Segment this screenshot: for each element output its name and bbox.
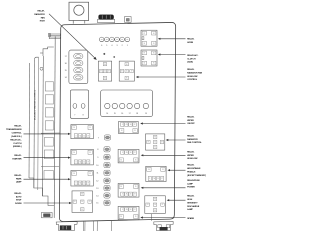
svg-text:HIGH: HIGH [40,21,46,23]
svg-text:RELAY-: RELAY- [14,192,21,195]
svg-text:30: 30 [83,162,85,164]
svg-text:30: 30 [154,142,156,144]
svg-text:30: 30 [144,43,146,45]
leader arrow [169,199,186,201]
svg-text:86: 86 [153,53,155,55]
relay K4 a/c clutch gas [141,50,157,66]
svg-text:87: 87 [88,183,90,185]
mounting legs [82,221,84,231]
svg-text:85: 85 [153,43,155,45]
svg-text:5: 5 [106,45,107,47]
module outer edge [28,63,31,178]
svg-text:85: 85 [126,78,128,80]
svg-text:RELAY-: RELAY- [187,151,194,154]
svg-text:HIGH/LOW: HIGH/LOW [187,76,197,78]
leader arrow [24,157,69,159]
svg-text:86: 86 [126,64,128,66]
svg-text:30: 30 [130,209,132,211]
cartridge fuse block F14-F17 [69,50,88,84]
relay K5 radiator fan control [146,134,165,150]
svg-text:HIGH: HIGH [187,199,193,201]
svg-text:85: 85 [153,63,155,65]
svg-text:RELAY A/C-: RELAY A/C- [10,139,21,142]
svg-text:1: 1 [127,45,128,47]
svg-text:4: 4 [111,45,112,47]
svg-text:86: 86 [73,173,75,175]
svg-text:2: 2 [122,45,123,47]
svg-text:85: 85 [89,152,91,154]
svg-text:RADIATOR FAN: RADIATOR FAN [187,71,202,74]
leader arrow [24,178,69,180]
relay K9 wiper high/low [118,149,139,163]
svg-text:30: 30 [130,152,132,154]
leader arrow [160,38,186,40]
svg-text:87: 87 [121,71,123,73]
svg-text:87: 87 [134,124,136,126]
svg-text:85: 85 [135,160,137,162]
svg-text:(EXCEPT MEMORY): (EXCEPT MEMORY) [187,175,206,177]
svg-text:9: 9 [97,157,98,159]
svg-text:86: 86 [154,137,156,139]
panel bottom steps [29,178,54,206]
svg-text:RELAY-: RELAY- [187,164,194,167]
svg-text:CONTROL: CONTROL [12,132,23,134]
left cover panel edge [54,36,55,218]
mounting post P1 with hole [69,2,89,20]
leader arrow [143,187,186,189]
svg-text:HORN: HORN [187,42,193,44]
svg-text:DOWN: DOWN [15,203,22,205]
svg-text:30: 30 [126,71,128,73]
svg-text:LAMP: LAMP [16,181,22,184]
svg-text:CLUTCH: CLUTCH [13,143,22,145]
svg-text:87: 87 [161,142,163,144]
svg-text:87: 87 [144,53,146,55]
svg-text:86: 86 [121,130,123,132]
svg-text:85: 85 [162,169,164,171]
svg-text:ADJUSTABLE: ADJUSTABLE [187,167,201,170]
svg-text:87: 87 [88,162,90,164]
svg-text:8: 8 [97,149,98,151]
relay K8 wiper on/off [119,121,139,133]
svg-text:86: 86 [148,169,150,171]
svg-text:RELAY-: RELAY- [187,135,194,138]
terminal cavities 1-6 [99,37,104,42]
svg-text:30: 30 [104,71,106,73]
svg-text:30: 30 [154,204,156,206]
svg-text:FAN CONTROL: FAN CONTROL [187,141,202,144]
svg-text:STARTER: STARTER [12,158,22,161]
leader arrow [142,123,185,125]
svg-text:(GAS/3.5L): (GAS/3.5L) [11,135,22,138]
svg-text:87: 87 [148,142,150,144]
svg-text:87: 87 [134,152,136,154]
svg-text:POWER: POWER [187,187,195,189]
svg-text:30: 30 [83,135,85,137]
svg-text:WIPER: WIPER [187,155,194,157]
svg-text:86: 86 [104,64,106,66]
svg-text:RELAY-: RELAY- [187,68,194,71]
svg-text:15: 15 [65,70,67,72]
svg-text:14: 14 [96,195,98,197]
svg-text:85: 85 [89,173,91,175]
small connector on panel bottom [42,212,53,217]
svg-text:FAN: FAN [41,16,46,19]
connector J1 (black ribbon) [98,19,115,22]
svg-text:87: 87 [74,201,76,203]
svg-text:30: 30 [157,178,159,180]
post pedestal [72,21,74,24]
PWM module panel [42,56,45,196]
svg-text:86: 86 [73,152,75,154]
svg-text:85: 85 [104,78,106,80]
svg-text:RELAY/FUSE: RELAY/FUSE [187,179,200,182]
alignment dot [104,53,106,55]
bottom connector C2 [154,222,173,231]
svg-text:87: 87 [89,201,91,203]
svg-text:3: 3 [117,45,118,47]
panel top steps [43,47,54,56]
svg-text:RELAY-: RELAY- [14,124,21,127]
svg-text:30: 30 [83,183,85,185]
svg-text:87: 87 [147,204,149,206]
svg-text:RELAY-: RELAY- [38,10,45,13]
svg-text:18: 18 [136,113,138,115]
svg-text:17: 17 [65,56,67,58]
svg-text:RELAY-: RELAY- [187,195,194,198]
svg-text:85: 85 [154,147,156,149]
svg-text:86: 86 [120,186,122,188]
alignment dot [114,56,115,57]
svg-text:19: 19 [145,113,147,115]
relay K15 auto shut down [72,191,93,213]
svg-text:ON/OFF: ON/OFF [187,123,195,125]
svg-text:87: 87 [161,178,163,180]
svg-text:14: 14 [106,113,108,115]
svg-text:30: 30 [144,63,146,65]
svg-text:10: 10 [96,165,98,167]
svg-text:RELAY A/C-: RELAY A/C- [187,54,198,57]
leader arrow [143,154,186,156]
relay K11 spare [118,206,139,219]
leader arrow to relay K1 [49,14,95,58]
svg-text:CONTROL: CONTROL [187,79,198,81]
svg-text:TRANSMISSION: TRANSMISSION [6,128,22,131]
svg-text:15: 15 [114,113,116,115]
svg-text:11: 11 [97,173,99,175]
svg-text:(DIESEL): (DIESEL) [13,146,22,148]
svg-text:LAMP: LAMP [187,208,193,211]
svg-text:87: 87 [134,209,136,211]
svg-text:16: 16 [65,63,67,65]
svg-text:PARK: PARK [16,177,22,180]
svg-text:85: 85 [81,209,83,211]
svg-text:85: 85 [154,210,156,212]
svg-text:7: 7 [98,137,99,139]
svg-text:87: 87 [88,135,90,137]
leader arrow [24,133,69,135]
svg-text:RELAY-: RELAY- [14,154,21,157]
leader arrow [143,217,186,219]
svg-text:RELAY-: RELAY- [187,116,194,119]
svg-text:14: 14 [65,77,67,79]
svg-text:SHUT: SHUT [16,200,22,202]
relay body B1 [70,90,88,119]
svg-text:86: 86 [73,127,75,129]
svg-text:RADIATOR: RADIATOR [187,138,198,141]
svg-text:30: 30 [130,194,132,196]
bottom connector C1 [56,222,77,231]
svg-text:CLUTCH: CLUTCH [187,58,196,60]
leader arrow [138,76,186,78]
svg-text:MODULE-PWM FAN CONTROL: MODULE-PWM FAN CONTROL [33,89,36,120]
svg-text:RELAY-: RELAY- [187,38,194,41]
relay K7 HID lamp [145,196,166,214]
svg-text:7: 7 [74,114,75,116]
relay K3 horn [141,30,157,46]
svg-text:85: 85 [134,130,136,132]
svg-text:87: 87 [134,194,136,196]
relay K13 starter [71,149,93,165]
svg-text:87: 87 [108,71,110,73]
svg-text:SPARE: SPARE [187,217,194,220]
svg-text:87: 87 [144,33,146,35]
relay K1 radiator fan high [98,61,111,81]
svg-text:LAMP: LAMP [187,182,193,185]
relay K12 transmission control [71,125,93,139]
left bracket prongs [49,34,60,36]
svg-text:INTENSITY: INTENSITY [187,202,198,204]
svg-text:87: 87 [100,71,102,73]
svg-text:AUTO: AUTO [16,195,22,198]
leader arrow [24,202,70,204]
svg-text:85: 85 [135,216,137,218]
svg-text:RADIATOR: RADIATOR [34,13,45,16]
leader arrow [170,169,186,171]
svg-text:85: 85 [135,186,137,188]
svg-text:86: 86 [120,216,122,218]
relay K6 adjustable pedals [146,166,166,181]
svg-text:16: 16 [121,113,123,115]
svg-text:PEDALS: PEDALS [187,171,196,174]
svg-text:86: 86 [153,33,155,35]
svg-text:6: 6 [101,45,102,47]
svg-text:85: 85 [89,127,91,129]
svg-text:86: 86 [154,199,156,201]
heat sink ribs [45,82,53,91]
svg-text:17: 17 [129,113,131,115]
svg-text:(GAS): (GAS) [187,61,193,64]
fuse box main outline [59,22,175,221]
svg-text:HIGH/LOW: HIGH/LOW [187,158,197,160]
svg-text:12: 12 [96,181,98,183]
leader arrow [160,54,186,56]
svg-text:WIPER: WIPER [187,120,194,122]
relay K14 park lamp [71,171,93,187]
relay K2 radiator fan hi/low control [119,61,134,81]
svg-text:15: 15 [96,203,98,205]
leader arrow [168,139,186,141]
alignment hole [40,67,43,70]
svg-text:8: 8 [83,114,84,116]
svg-text:13: 13 [96,188,98,190]
connector J2 (small) [125,17,132,23]
svg-text:30: 30 [81,201,83,203]
relay K10 lamp power [118,184,139,198]
svg-text:RELAY-: RELAY- [14,174,21,177]
svg-text:86: 86 [81,194,83,196]
fuse block B2 (6 cavities) [101,90,153,117]
svg-text:DISCHARGE: DISCHARGE [187,205,200,208]
svg-text:87: 87 [131,71,133,73]
svg-text:86: 86 [120,160,122,162]
svg-text:87: 87 [162,204,164,206]
svg-text:30: 30 [130,124,132,126]
wire stub [151,214,153,221]
